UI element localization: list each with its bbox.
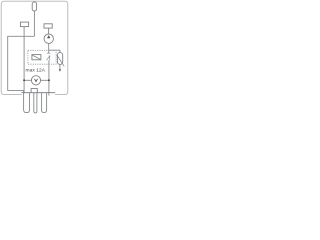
svg-text:max 12A: max 12A <box>25 67 45 73</box>
tank box T1 <box>31 89 37 93</box>
wire breather stub <box>33 11 35 36</box>
valve V1 diagonal <box>32 55 40 59</box>
wire drain stub <box>59 64 61 69</box>
port rectangle right <box>44 24 52 28</box>
suction pipe U1 <box>24 90 30 112</box>
check valve C1 stub <box>48 50 50 53</box>
wire gauge left <box>24 79 31 81</box>
wire pump bottom stub <box>48 43 50 50</box>
flow meter M1 v glyph <box>35 79 38 82</box>
port rectangle left <box>20 22 28 27</box>
wire pressure header <box>49 50 60 52</box>
wire pump top stub <box>48 28 50 34</box>
enclosure outline <box>1 1 68 94</box>
pump P1 triangle <box>47 35 50 38</box>
wire P-line left <box>8 36 35 90</box>
valve V1 body <box>32 55 41 60</box>
pump P1 circle <box>44 34 53 43</box>
suction pipe U3 <box>42 93 47 113</box>
wire left vertical <box>23 27 25 93</box>
tank line <box>22 92 56 94</box>
junction node left <box>23 79 25 81</box>
breather capsule B1 <box>32 2 36 11</box>
junction node right <box>48 79 50 81</box>
dashed manifold box <box>28 50 56 64</box>
wire gauge right <box>41 79 49 81</box>
flow meter M1 circle <box>31 76 40 85</box>
drain arrowhead <box>59 69 61 72</box>
check valve C1 poppet <box>46 56 49 61</box>
wire return line <box>48 60 50 95</box>
suction pipe U2 <box>34 93 37 113</box>
relief valve V2 capsule <box>57 53 62 65</box>
check valve C1 seat <box>47 52 50 54</box>
relief valve V2 arrow diagonal <box>57 55 64 66</box>
